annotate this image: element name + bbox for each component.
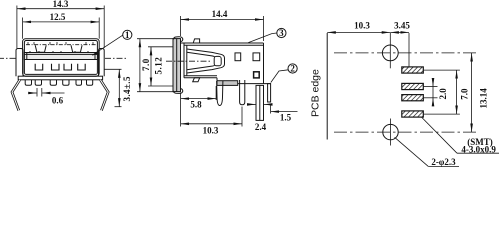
dimension 10.3 (side) [181, 107, 242, 136]
dimension 0.6 [29, 88, 65, 106]
PCB edge line [326, 33, 328, 140]
body outline (side view) [181, 43, 264, 84]
svg-text:10.3: 10.3 [203, 125, 219, 135]
callout 1 [92, 30, 132, 56]
SMT pads note [461, 137, 496, 154]
rear board-lock leg [256, 85, 264, 120]
mounting hole top [334, 33, 479, 68]
contact dimple 1 [35, 64, 43, 70]
dimension 1.5 [271, 105, 298, 123]
callout 3 [248, 28, 286, 43]
top rear tab [193, 39, 199, 43]
solder foot 4 [63, 80, 69, 86]
dimension 14.3 [17, 0, 104, 48]
centerline (side view) [166, 60, 211, 62]
svg-text:3: 3 [279, 28, 284, 38]
SMT pad 1 [402, 67, 424, 73]
svg-text:2.4: 2.4 [255, 122, 267, 132]
leg right [100, 80, 108, 111]
hole leader [395, 137, 459, 166]
dimension 2.0 [423, 79, 448, 106]
dimension 13.14 [472, 53, 489, 132]
solder foot 3 [50, 80, 56, 86]
bottom step band [217, 78, 271, 86]
svg-text:1.5: 1.5 [280, 112, 292, 122]
shell spring inner bottom [187, 65, 215, 70]
svg-text:10.3: 10.3 [354, 21, 370, 31]
svg-text:2-φ2.3: 2-φ2.3 [431, 157, 456, 167]
dimension 5.12 [148, 47, 173, 86]
contact dimple 4 [78, 64, 86, 70]
hidden line (flange top behind shell) [26, 42, 96, 45]
dimension 3.4±.5 [105, 69, 132, 106]
flange bottom curl [173, 89, 182, 94]
SMT pad 4 [402, 111, 424, 117]
dimension 14.4 [181, 9, 264, 41]
svg-text:2: 2 [290, 64, 295, 74]
svg-text:5.8: 5.8 [190, 100, 202, 110]
svg-text:5.12: 5.12 [153, 57, 163, 75]
dimension 7.0 (pcb) [423, 70, 469, 114]
leg left [12, 80, 20, 111]
mounting hole bottom [334, 119, 479, 146]
spring tip window [214, 56, 221, 65]
solder foot 6 [87, 80, 93, 86]
svg-text:3.45: 3.45 [394, 21, 410, 31]
shell spring inner top [187, 52, 215, 57]
svg-text:PCB edge: PCB edge [310, 69, 322, 117]
solder foot 2 [35, 80, 41, 86]
SMT pad 2 [402, 83, 424, 89]
flange (side view, grey) [173, 39, 181, 92]
svg-text:12.5: 12.5 [50, 12, 66, 22]
flange bottom strip [18, 76, 102, 80]
svg-text:14.3: 14.3 [53, 0, 69, 9]
tongue (contact blade) [24, 51, 97, 60]
mounting ear right [99, 49, 105, 77]
SMT pads leader [422, 117, 458, 153]
rear dark square [254, 72, 260, 78]
flange top curl [173, 37, 182, 42]
pin callout 2 target [268, 84, 271, 102]
dimension 5.8 [181, 86, 217, 127]
mounting ear left [16, 49, 23, 77]
shell hole square 1 [235, 53, 241, 61]
front through-hole pin [217, 81, 223, 106]
solder foot 1 [25, 80, 31, 86]
bottom front tab [193, 78, 200, 82]
svg-text:13.14: 13.14 [479, 88, 489, 109]
dimension 3.45 [390, 21, 410, 67]
shell spring (side) outer [187, 49, 225, 73]
contact dimple 3 [64, 64, 72, 70]
shell hole square 2 [253, 53, 260, 61]
svg-text:0.6: 0.6 [52, 96, 64, 106]
callout 2 [271, 64, 297, 83]
SMT pad 3 [402, 95, 424, 101]
shell outer (front view) [23, 39, 100, 76]
shell top dimple left [35, 45, 46, 52]
dimension 10.3 (pcb) [327, 21, 390, 33]
svg-text:4-3.0x0.9: 4-3.0x0.9 [461, 145, 496, 155]
svg-text:7.0: 7.0 [460, 88, 470, 100]
solder foot 5 [76, 80, 82, 86]
shell top dimple right [71, 45, 82, 52]
svg-text:2.0: 2.0 [438, 88, 448, 100]
centerline right [105, 57, 128, 59]
svg-text:7.0: 7.0 [141, 58, 151, 71]
dimension 7.0 (side) [137, 39, 173, 92]
second through-hole pin [240, 80, 245, 105]
dimension 2.4 [249, 104, 271, 131]
svg-text:1: 1 [125, 30, 130, 40]
centerline left [0, 57, 16, 59]
dimension 12.5 [23, 12, 100, 39]
svg-text:3.4±.5: 3.4±.5 [122, 76, 132, 101]
contact dimple 2 [52, 64, 60, 70]
svg-text:14.4: 14.4 [212, 9, 228, 19]
